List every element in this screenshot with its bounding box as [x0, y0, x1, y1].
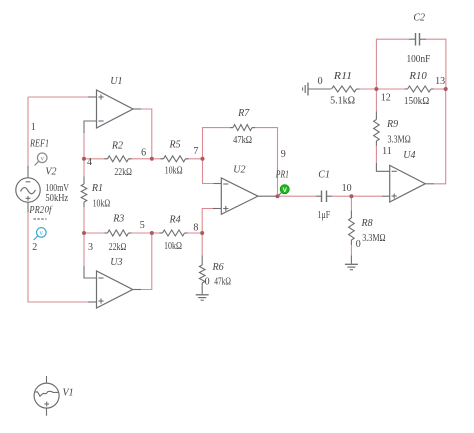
wire R4 to node 8 — [185, 232, 203, 234]
wire ground to R11 — [308, 88, 331, 90]
svg-text:11: 11 — [382, 146, 392, 157]
svg-text:V: V — [283, 187, 288, 194]
svg-text:R5: R5 — [169, 140, 181, 151]
wire U1 output to node 6 — [133, 108, 141, 110]
capacitor C2 100nF — [407, 12, 431, 65]
ground at R6 — [196, 294, 209, 296]
op-amp U3 — [97, 257, 133, 308]
svg-text:V2: V2 — [45, 167, 56, 178]
op-amp U4 — [390, 150, 426, 202]
svg-text:V1: V1 — [63, 388, 74, 399]
node 12 junction — [374, 87, 378, 91]
wire node 3 to R3 — [84, 232, 108, 234]
wire U4 output up to node 13 — [425, 183, 434, 185]
svg-text:REF1: REF1 — [29, 139, 49, 150]
resistor R8 3.3M — [349, 218, 386, 244]
wire U2 output to junction node 9 — [258, 195, 276, 197]
svg-text:10: 10 — [342, 183, 352, 194]
node 7 junction — [201, 157, 205, 161]
svg-text:R7: R7 — [237, 108, 250, 119]
wire R9 to U4 inverting input node 11 — [375, 141, 377, 146]
wire R1 bottom to node 3 — [83, 202, 85, 207]
wire U1 inverting input to node 4 — [84, 121, 97, 133]
svg-text:4: 4 — [87, 157, 92, 168]
wire net2 V2- down and to U3 + input — [28, 212, 88, 302]
svg-text:R9: R9 — [386, 119, 398, 130]
wire R7 right to node 9 down to U2 output junction — [252, 128, 278, 197]
svg-text:1μF: 1μF — [318, 210, 331, 221]
ground at R11 (rotated) — [307, 83, 309, 96]
AC source V2 100mV 50kHz — [16, 166, 70, 212]
wire node 10 to U4 non-inverting input — [351, 195, 382, 197]
svg-text:50kHz: 50kHz — [45, 193, 68, 204]
svg-text:0: 0 — [205, 277, 210, 288]
resistor R1 10k — [81, 183, 110, 210]
svg-text:8: 8 — [193, 223, 198, 234]
svg-text:R11: R11 — [333, 71, 352, 82]
svg-text:R4: R4 — [169, 215, 181, 226]
node 6 junction — [150, 157, 154, 161]
wire C2 right to node 13 — [426, 39, 446, 89]
svg-text:U2: U2 — [233, 165, 245, 176]
svg-text:v: v — [40, 154, 44, 162]
svg-text:100nF: 100nF — [407, 54, 431, 65]
wire C1 to node 10 — [332, 195, 351, 197]
probe PR2 (voltage) — [29, 205, 53, 241]
resistor R3 22k — [105, 214, 132, 254]
wire node 4 to R2 — [84, 158, 108, 160]
svg-text:10kΩ: 10kΩ — [93, 199, 111, 210]
svg-text:1: 1 — [31, 122, 36, 133]
wire node 4 to R1 top — [83, 159, 85, 177]
wire U3 output to node 5 — [133, 289, 141, 291]
svg-text:v: v — [40, 229, 44, 237]
node 4 junction — [82, 157, 86, 161]
svg-text:22kΩ: 22kΩ — [109, 242, 127, 253]
node 5 junction — [150, 231, 154, 235]
wire junction to C1 — [278, 195, 317, 197]
probe REF1 — [29, 139, 49, 166]
svg-text:0: 0 — [356, 239, 361, 250]
node 13 junction — [444, 87, 448, 91]
wire node 10 down to R8 — [350, 196, 352, 210]
svg-text:13: 13 — [435, 76, 445, 87]
wire node 5 to R4 — [152, 232, 163, 234]
svg-text:6: 6 — [141, 148, 146, 159]
resistor R6 47k — [199, 262, 231, 288]
resistor R4 10k — [160, 215, 188, 253]
svg-text:3.3MΩ: 3.3MΩ — [362, 233, 385, 244]
wire node 12 to R10 — [376, 88, 404, 90]
svg-text:47kΩ: 47kΩ — [214, 277, 231, 288]
wire node 8 up to U2 non-inverting input — [202, 209, 213, 234]
node 10 junction — [349, 194, 353, 198]
svg-text:C2: C2 — [413, 12, 425, 23]
svg-text:3: 3 — [88, 242, 93, 253]
node 3 junction — [82, 231, 86, 235]
svg-text:R6: R6 — [212, 262, 224, 273]
svg-text:2: 2 — [32, 242, 37, 253]
svg-text:C1: C1 — [318, 170, 330, 181]
op-amp U1 — [97, 76, 134, 128]
svg-text:5.1kΩ: 5.1kΩ — [330, 96, 355, 107]
resistor R5 10k — [161, 140, 189, 177]
svg-text:U3: U3 — [110, 257, 122, 268]
wire R2 to node 6 — [129, 158, 152, 160]
wire R5 to node 7 — [186, 158, 203, 160]
resistor R7 47k — [230, 108, 255, 146]
svg-text:R3: R3 — [112, 214, 124, 225]
svg-text:47kΩ: 47kΩ — [233, 135, 252, 146]
svg-text:10kΩ: 10kΩ — [164, 241, 182, 252]
wire node 7 down to U2 inverting input — [203, 159, 214, 184]
wire node 6 to R5 — [152, 158, 164, 160]
svg-text:12: 12 — [381, 93, 391, 104]
svg-text:R1: R1 — [91, 183, 103, 194]
probe PR1 (green, on U2 output) — [275, 170, 289, 196]
node 8 junction — [200, 231, 204, 235]
ground at R8 — [345, 263, 358, 265]
svg-text:10kΩ: 10kΩ — [165, 166, 183, 177]
resistor R10 150k — [404, 71, 434, 107]
wire node 8 down to R6 — [201, 233, 203, 256]
wire R10 to node 13 — [434, 88, 446, 90]
svg-text:22kΩ: 22kΩ — [114, 167, 131, 178]
resistor R2 22k — [105, 141, 132, 179]
wire R3 to node 5 — [129, 232, 152, 234]
svg-text:PR1: PR1 — [275, 170, 289, 181]
svg-text:U4: U4 — [403, 150, 415, 161]
node 9 junction at U2 output — [276, 194, 280, 198]
wire R6 bottom to ground — [201, 283, 203, 294]
svg-text:U1: U1 — [110, 76, 122, 87]
arbitrary waveform source V1 — [34, 376, 74, 416]
svg-text:R10: R10 — [408, 71, 426, 82]
wire node 3 to U3 inverting input — [83, 233, 85, 266]
svg-text:5: 5 — [140, 220, 145, 231]
wire node 12 down to R9 — [375, 89, 377, 112]
capacitor C1 1uF — [316, 170, 332, 222]
wire R8 bottom to ground — [350, 240, 352, 245]
svg-text:9: 9 — [281, 149, 286, 160]
svg-text:0: 0 — [318, 76, 323, 87]
svg-text:150kΩ: 150kΩ — [404, 96, 429, 107]
svg-text:R8: R8 — [361, 218, 373, 229]
svg-text:3.3MΩ: 3.3MΩ — [388, 135, 411, 146]
svg-text:R2: R2 — [111, 141, 123, 152]
svg-text:7: 7 — [193, 146, 198, 157]
svg-text:PR2: PR2 — [29, 205, 44, 216]
resistor R11 5.1k — [330, 71, 359, 107]
wire net1 V2+ to U1 + input — [27, 97, 29, 168]
resistor R9 3.3M — [374, 119, 411, 146]
op-amp U2 — [221, 165, 258, 215]
wire node 12 up and over C2 left — [376, 39, 409, 89]
wire node 7 up to R7 feedback — [203, 128, 234, 159]
wire R11 to node 12 — [357, 88, 376, 90]
